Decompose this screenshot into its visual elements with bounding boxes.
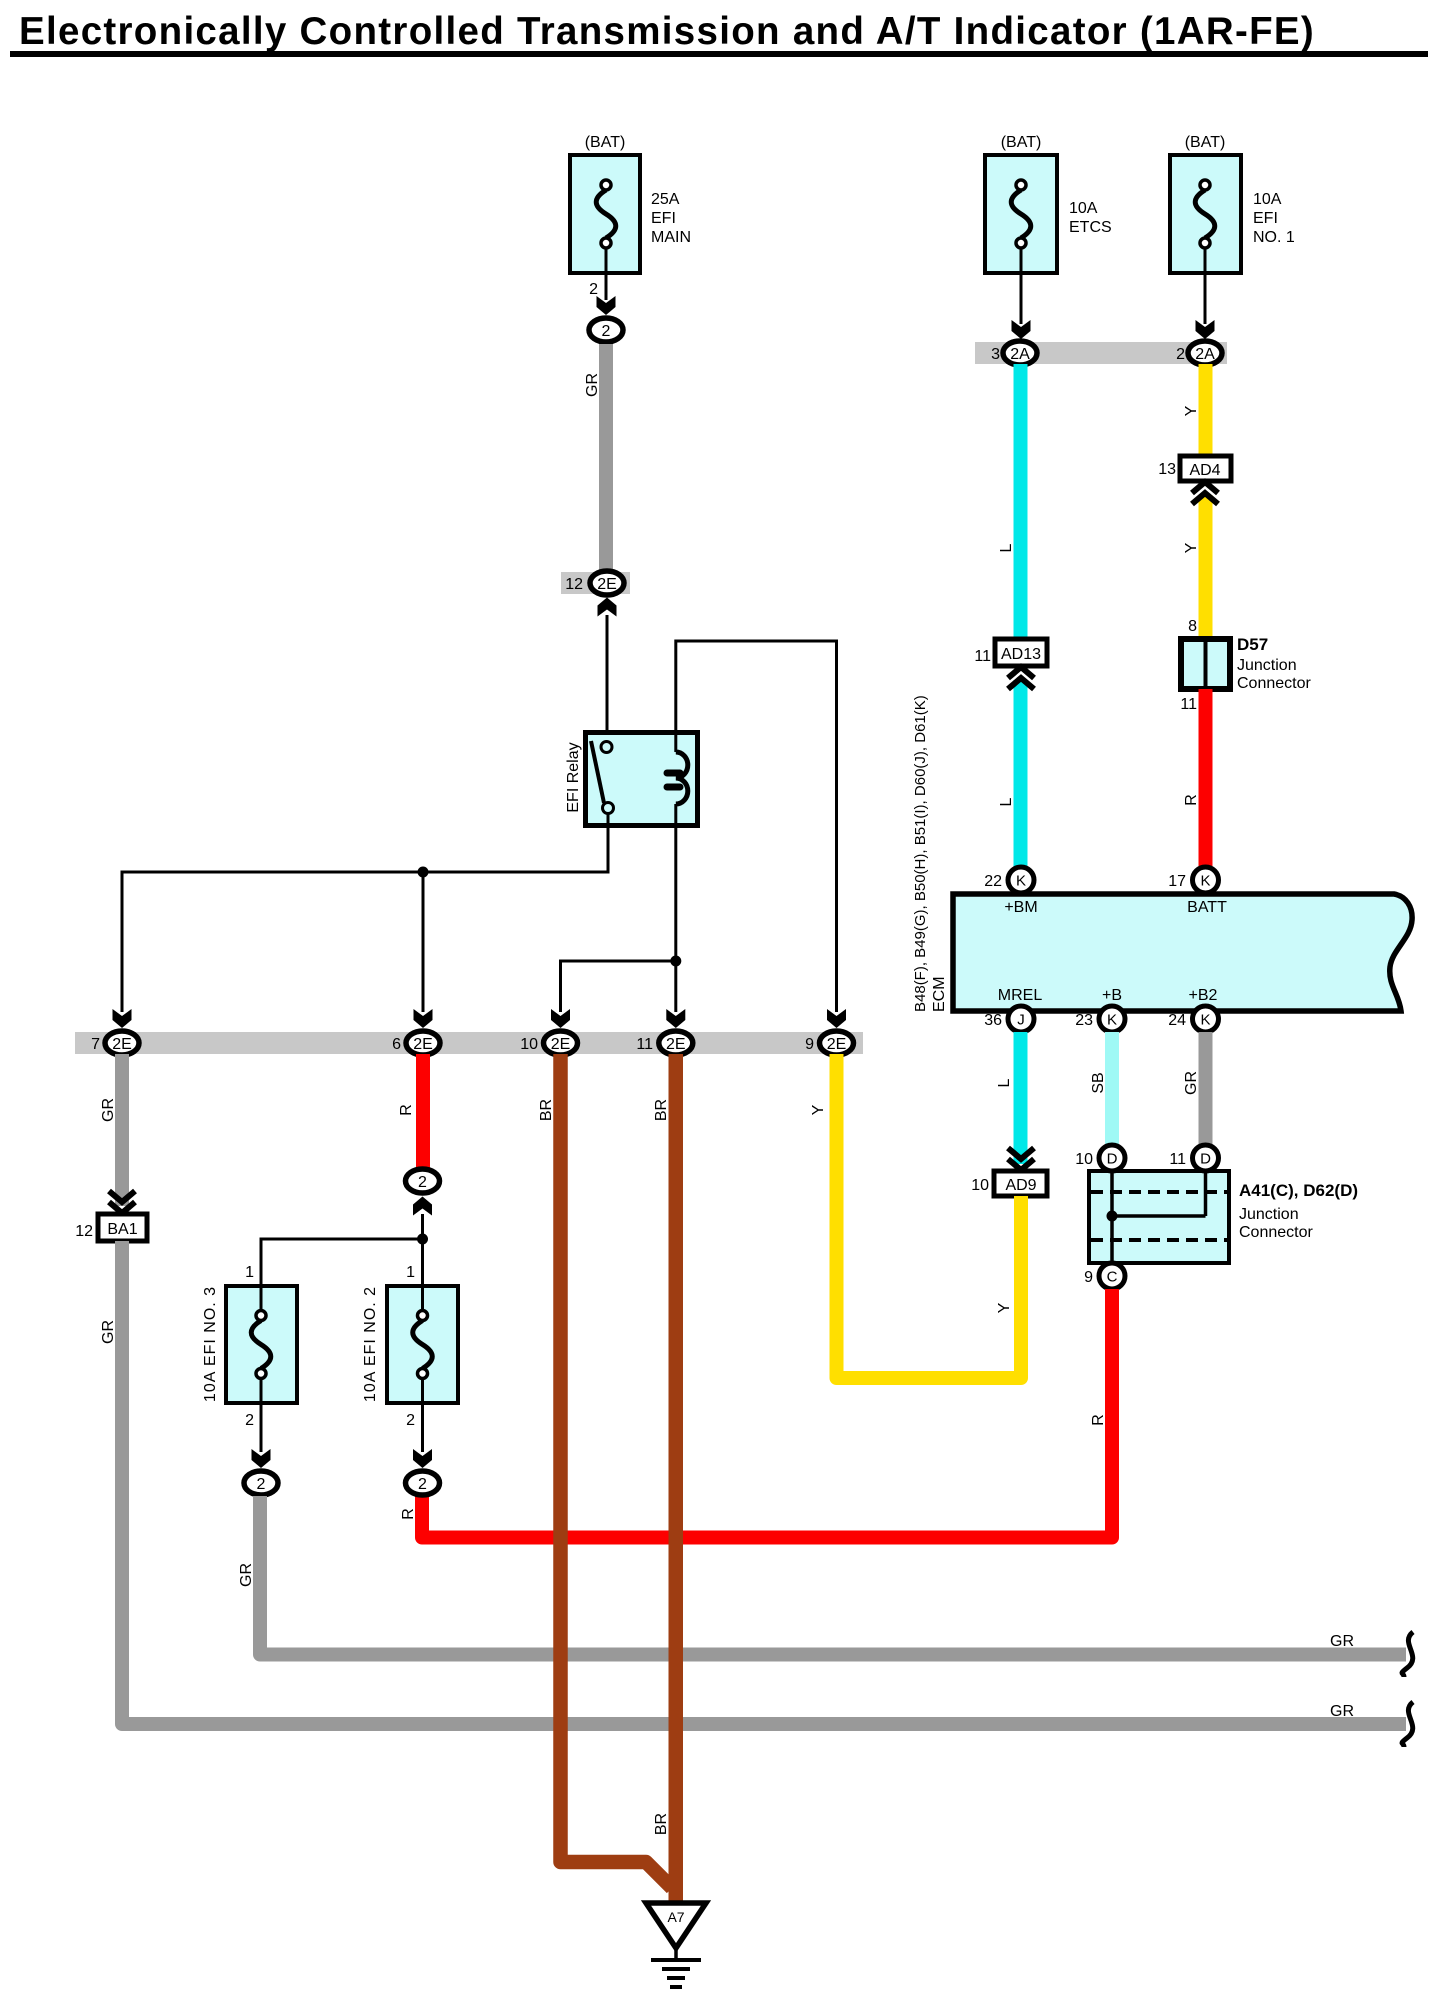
ground A7	[646, 1903, 706, 1987]
pin 9 C	[1084, 1263, 1125, 1289]
svg-text:Connector: Connector	[1237, 675, 1311, 692]
svg-text:11: 11	[974, 648, 991, 665]
EFI Relay	[565, 733, 698, 826]
connector band strip 12 2E	[561, 572, 630, 594]
wire fuse EFI NO.1 to 2A	[1196, 273, 1215, 339]
svg-text:12: 12	[75, 1223, 93, 1240]
svg-text:L: L	[998, 797, 1015, 806]
wire GR from connector 2 to 2E	[584, 344, 613, 572]
svg-text:10: 10	[520, 1036, 538, 1053]
connector 3 2A	[991, 341, 1037, 365]
wire from connector 2 to fuses	[421, 1214, 424, 1286]
svg-text:2: 2	[602, 323, 611, 340]
wire SB from +B pin 23	[1105, 1032, 1119, 1146]
svg-text:R: R	[1183, 794, 1200, 806]
fuse 10A EFI NO. 1	[1170, 134, 1295, 273]
wire R loop from 9 C to fuse EFI NO.2	[422, 1289, 1112, 1538]
wire R from 6 2E to connector 2	[416, 1054, 430, 1168]
connector band 2E	[75, 1032, 863, 1054]
svg-text:24: 24	[1168, 1012, 1186, 1029]
svg-text:K: K	[1016, 873, 1026, 890]
fuse 10A ETCS	[985, 134, 1112, 273]
svg-text:1: 1	[406, 1264, 415, 1281]
pin 17 K	[1168, 867, 1218, 893]
pin 23 K	[1075, 1006, 1125, 1032]
pin 36 J	[984, 1006, 1034, 1032]
svg-text:AD13: AD13	[1001, 646, 1041, 663]
svg-text:10: 10	[1075, 1151, 1093, 1168]
svg-text:SB: SB	[1090, 1072, 1107, 1093]
svg-text:BATT: BATT	[1187, 899, 1227, 916]
svg-text:2: 2	[1176, 346, 1185, 363]
connector 11 AD13	[974, 639, 1047, 666]
wire Y from AD4 to D57	[1199, 495, 1213, 639]
wire relay coil top to 9 2E	[676, 641, 837, 1012]
wire branch to 10 2E	[561, 961, 676, 1012]
svg-text:22: 22	[984, 873, 1002, 890]
svg-text:2E: 2E	[597, 576, 617, 593]
svg-text:D57: D57	[1237, 635, 1268, 654]
svg-text:13: 13	[1158, 461, 1176, 478]
ECM box	[953, 894, 1412, 1011]
node junction on switch run	[418, 867, 429, 878]
svg-text:Y: Y	[996, 1302, 1013, 1313]
wire L from 3 2A down	[1014, 364, 1028, 639]
svg-text:Y: Y	[1183, 405, 1200, 416]
wire relay switch to horizontal run	[122, 813, 608, 1012]
svg-text:2: 2	[406, 1412, 415, 1429]
svg-text:A41(C), D62(D): A41(C), D62(D)	[1239, 1181, 1358, 1200]
svg-text:2E: 2E	[413, 1036, 433, 1053]
fuse 10A EFI NO. 2	[362, 1286, 458, 1403]
svg-text:17: 17	[1168, 873, 1186, 890]
svg-text:K: K	[1200, 873, 1210, 890]
connector 11 2E	[636, 1009, 692, 1055]
svg-text:MAIN: MAIN	[651, 229, 691, 246]
svg-text:B48(F), B49(G), B50(H), B51(I): B48(F), B49(G), B50(H), B51(I), D60(J), …	[912, 695, 929, 1012]
pin 11 D	[1169, 1145, 1218, 1171]
wire fuse EFI MAIN to connector 2	[589, 273, 615, 315]
svg-text:11: 11	[636, 1036, 653, 1053]
svg-text:EFI: EFI	[651, 210, 676, 227]
connector 2 2A	[1176, 341, 1222, 365]
node junction coil run	[670, 956, 681, 967]
pin 24 K	[1168, 1006, 1218, 1032]
junction connector D57	[1181, 635, 1311, 692]
svg-text:L: L	[996, 1078, 1013, 1087]
svg-text:Connector: Connector	[1239, 1224, 1313, 1241]
svg-text:ETCS: ETCS	[1069, 219, 1112, 236]
svg-text:2E: 2E	[666, 1036, 686, 1053]
svg-text:AD4: AD4	[1189, 462, 1220, 479]
wire L from AD13 to ECM pin 22	[1014, 680, 1028, 867]
wire node to 6 2E	[422, 872, 425, 1012]
pin 22 K	[984, 867, 1034, 893]
svg-text:EFI: EFI	[1253, 210, 1278, 227]
svg-text:2E: 2E	[551, 1036, 571, 1053]
svg-text:GR: GR	[1330, 1633, 1354, 1650]
svg-text:BR: BR	[538, 1099, 555, 1121]
svg-text:2: 2	[245, 1412, 254, 1429]
svg-text:D: D	[1200, 1151, 1211, 1168]
fuse 25A EFI MAIN	[570, 134, 691, 273]
connector 13 AD4	[1158, 456, 1231, 481]
junction connector A41(C), D62(D)	[1089, 1171, 1358, 1263]
wire GR from BA1 to bottom run	[122, 1241, 1406, 1724]
wire Y from AD9 loop to 9 2E	[837, 1054, 1022, 1378]
svg-text:R: R	[1090, 1414, 1107, 1426]
svg-text:A7: A7	[667, 1909, 684, 1925]
connector 12 2E	[565, 571, 624, 617]
svg-text:GR: GR	[1183, 1071, 1200, 1095]
svg-text:+BM: +BM	[1004, 899, 1037, 916]
connector 2 (below EFI NO.3)	[244, 1471, 278, 1495]
wire fuse EFI NO.3 to connector 2	[252, 1403, 271, 1468]
svg-text:11: 11	[1169, 1151, 1186, 1168]
svg-text:2A: 2A	[1195, 346, 1215, 363]
wire BR from 11 2E to ground	[669, 1054, 684, 1905]
svg-text:K: K	[1107, 1012, 1117, 1029]
fuse 10A EFI NO. 3	[202, 1286, 297, 1403]
svg-text:+B: +B	[1102, 987, 1122, 1004]
svg-text:D: D	[1107, 1151, 1118, 1168]
svg-text:GR: GR	[100, 1098, 117, 1122]
svg-text:(BAT): (BAT)	[585, 134, 626, 151]
connector 10 2E	[520, 1009, 577, 1055]
connector 7 2E	[91, 1009, 139, 1055]
svg-text:10A: 10A	[1253, 191, 1282, 208]
svg-text:2E: 2E	[112, 1036, 132, 1053]
svg-text:C: C	[1107, 1269, 1118, 1286]
svg-text:GR: GR	[1330, 1703, 1354, 1720]
connector 9 2E	[805, 1009, 853, 1055]
connector 2 (below EFI NO.2)	[406, 1471, 440, 1495]
svg-text:2: 2	[418, 1476, 427, 1493]
svg-text:10: 10	[971, 1177, 989, 1194]
svg-text:6: 6	[392, 1036, 401, 1053]
svg-text:BR: BR	[653, 1099, 670, 1121]
wire fuse EFI NO.2 to connector 2	[413, 1403, 432, 1468]
svg-text:1: 1	[245, 1264, 254, 1281]
svg-text:10A EFI NO. 3: 10A EFI NO. 3	[202, 1286, 219, 1402]
wire GR from 7 2E down to BA1	[115, 1054, 129, 1206]
svg-text:9: 9	[805, 1036, 814, 1053]
svg-text:(BAT): (BAT)	[1185, 134, 1226, 151]
svg-text:(BAT): (BAT)	[1001, 134, 1042, 151]
svg-text:GR: GR	[100, 1320, 117, 1344]
svg-text:2: 2	[257, 1476, 266, 1493]
wire relay coil bottom down	[674, 804, 677, 1012]
svg-text:NO. 1: NO. 1	[1253, 229, 1295, 246]
svg-text:MREL: MREL	[998, 987, 1043, 1004]
svg-text:EFI Relay: EFI Relay	[565, 742, 582, 812]
svg-text:9: 9	[1084, 1269, 1093, 1286]
wire fuse ETCS to 2A	[1012, 273, 1031, 339]
svg-text:+B2: +B2	[1189, 987, 1218, 1004]
svg-text:K: K	[1200, 1012, 1210, 1029]
svg-text:Electronically Controlled Tran: Electronically Controlled Transmission a…	[19, 10, 1315, 53]
wire 12 2E to EFI Relay	[606, 615, 609, 743]
break symbol lower GR	[1402, 1702, 1413, 1747]
break symbol upper GR	[1402, 1632, 1413, 1677]
svg-text:10A EFI NO. 2: 10A EFI NO. 2	[362, 1286, 379, 1402]
connector 6 2E	[392, 1009, 440, 1055]
wire R from D57 to ECM pin 17	[1199, 689, 1213, 867]
svg-text:BR: BR	[653, 1813, 670, 1835]
svg-text:25A: 25A	[651, 191, 680, 208]
svg-text:11: 11	[1180, 696, 1197, 713]
connector band 2A	[975, 342, 1227, 364]
svg-text:Y: Y	[810, 1104, 827, 1115]
svg-text:Y: Y	[1183, 542, 1200, 553]
svg-text:10A: 10A	[1069, 200, 1098, 217]
node junction above fuses	[417, 1234, 428, 1245]
svg-text:2: 2	[589, 281, 598, 298]
wire branch to fuse EFI NO.3	[261, 1239, 423, 1286]
svg-text:2E: 2E	[827, 1036, 847, 1053]
svg-text:3: 3	[991, 346, 1000, 363]
svg-text:36: 36	[984, 1012, 1002, 1029]
connector 12 BA1	[75, 1214, 147, 1241]
svg-text:AD9: AD9	[1005, 1177, 1036, 1194]
svg-text:GR: GR	[584, 373, 601, 397]
wire L from MREL pin 36	[1014, 1032, 1028, 1164]
pin 10 D	[1075, 1145, 1125, 1171]
svg-text:23: 23	[1075, 1012, 1093, 1029]
svg-text:ECM: ECM	[931, 976, 948, 1012]
svg-text:GR: GR	[238, 1563, 255, 1587]
svg-text:Junction: Junction	[1239, 1206, 1299, 1223]
svg-text:Junction: Junction	[1237, 657, 1297, 674]
svg-text:7: 7	[91, 1036, 100, 1053]
svg-text:L: L	[998, 543, 1015, 552]
svg-text:8: 8	[1188, 618, 1197, 635]
wire BR from 10 2E to ground run	[561, 1054, 673, 1888]
svg-text:J: J	[1017, 1012, 1025, 1029]
svg-text:R: R	[398, 1104, 415, 1116]
connector 2 (above fuses)	[406, 1169, 440, 1216]
connector 2 (EFI MAIN)	[589, 318, 623, 342]
svg-text:2A: 2A	[1010, 346, 1030, 363]
wire Y from 2 2A down	[1199, 364, 1213, 456]
svg-text:BA1: BA1	[107, 1221, 137, 1238]
wire GR from +B2 pin 24	[1199, 1032, 1213, 1146]
svg-text:R: R	[400, 1508, 417, 1520]
wire GR from EFI NO.3 connector to right run	[260, 1496, 1406, 1655]
svg-text:12: 12	[565, 576, 583, 593]
connector 10 AD9	[971, 1171, 1047, 1196]
svg-text:2: 2	[418, 1174, 427, 1191]
